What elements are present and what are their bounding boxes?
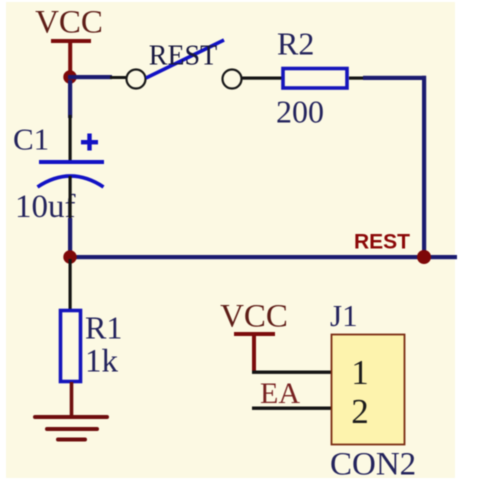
switch S1 arm <box>146 40 224 78</box>
svg-text:J1: J1 <box>330 298 358 333</box>
svg-text:2: 2 <box>351 392 369 431</box>
svg-text:200: 200 <box>276 94 324 130</box>
resistor R2 body <box>283 69 347 89</box>
switch S1 left pin <box>110 76 126 79</box>
junction dot B (left REST node) <box>63 250 76 263</box>
capacitor C1 bottom pin <box>69 176 72 220</box>
wire: R2 to REST net corner <box>363 76 426 257</box>
capacitor C1 top pin <box>69 115 72 161</box>
capacitor C1 label <box>13 122 49 157</box>
svg-text:REST: REST <box>354 231 410 254</box>
svg-text:CON2: CON2 <box>330 447 416 483</box>
resistor R1 value 1k <box>85 344 119 380</box>
switch S1 right contact circle <box>223 70 242 89</box>
net label REST (red, net line) <box>354 231 410 254</box>
resistor R1 body <box>61 311 81 382</box>
svg-text:REST: REST <box>149 41 217 72</box>
svg-text:1: 1 <box>351 353 369 392</box>
capacitor C1 plus sign <box>81 134 98 151</box>
svg-text:VCC: VCC <box>35 5 103 41</box>
junction dot C (right REST node) <box>417 250 431 264</box>
connector J1 pin number 1 <box>351 353 369 392</box>
svg-text:1k: 1k <box>85 344 119 380</box>
resistor R2 label <box>277 26 314 62</box>
connector J1 type CON2 <box>330 447 416 483</box>
wire: REST net horizontal <box>68 255 457 259</box>
connector J1 pin number 2 <box>351 392 369 431</box>
ground symbol <box>33 382 109 442</box>
connector J1 body <box>332 335 405 445</box>
power symbol VCC (top) <box>35 5 103 73</box>
switch S1 left contact circle <box>127 70 146 89</box>
wire: VCC to J1 pin 1 <box>252 371 331 374</box>
svg-text:10uf: 10uf <box>15 189 76 225</box>
wire: VCC node down to C1 <box>68 80 72 118</box>
resistor R1 top pin <box>69 259 72 311</box>
net label EA <box>260 377 300 410</box>
svg-text:R1: R1 <box>85 310 122 346</box>
wire: C1 to REST node <box>68 218 72 258</box>
svg-text:C1: C1 <box>13 122 49 157</box>
net label REST (switch) <box>149 41 217 72</box>
capacitor C1 value 10uf <box>15 189 76 225</box>
resistor R1 label <box>85 310 122 346</box>
resistor R2 value 200 <box>276 94 324 130</box>
wire: switch right pin to R2 <box>242 77 282 80</box>
wire: EA to J1 pin 2 <box>252 407 331 410</box>
wire: VCC node to switch left pin <box>68 75 112 79</box>
svg-text:EA: EA <box>260 377 300 410</box>
wire: R2 right pin <box>349 77 365 80</box>
svg-text:VCC: VCC <box>220 299 288 335</box>
capacitor C1 top plate <box>39 160 104 164</box>
svg-text:R2: R2 <box>277 26 314 62</box>
capacitor C1 bottom plate (arc) <box>38 176 104 187</box>
power symbol VCC (bottom) <box>220 299 288 373</box>
connector J1 label <box>330 298 358 333</box>
junction dot A (VCC node) <box>63 70 76 83</box>
